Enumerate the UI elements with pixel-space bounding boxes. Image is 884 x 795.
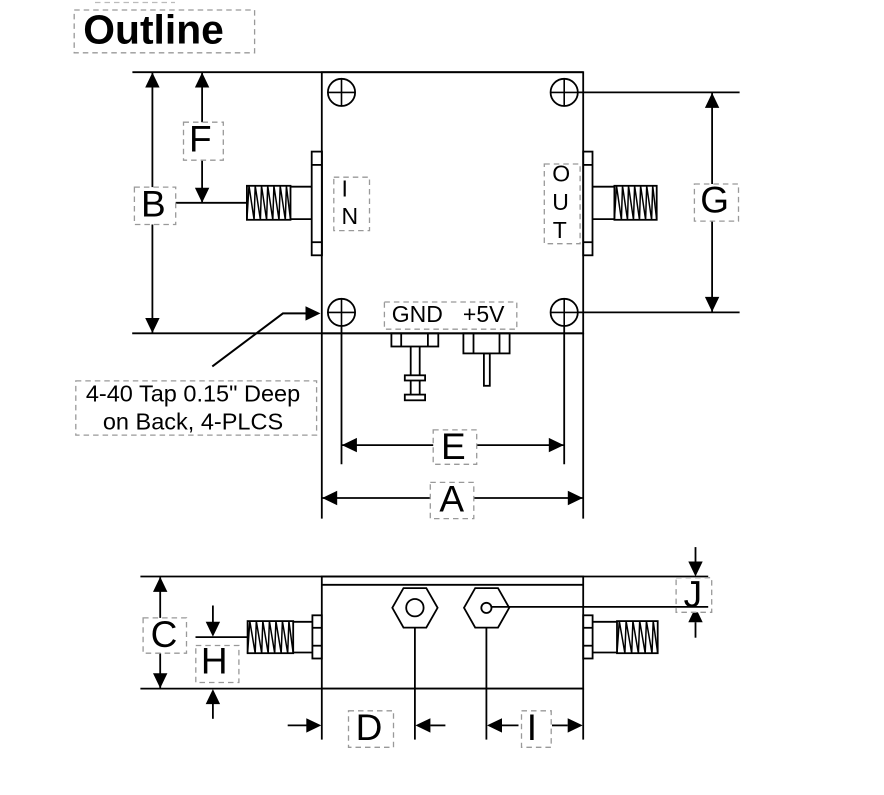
title Outline bbox=[74, 7, 254, 53]
top view: extension+bottom edge line bbox=[132, 332, 583, 334]
note 4-40 tap bbox=[76, 381, 317, 436]
svg-text:E: E bbox=[441, 426, 466, 467]
OUT connector barrel (top view) bbox=[593, 187, 615, 219]
IN connector flange (top view) bbox=[312, 152, 322, 256]
svg-text:O: O bbox=[552, 161, 570, 187]
label C bbox=[143, 614, 186, 655]
svg-text:4-40 Tap 0.15" Deep: 4-40 Tap 0.15" Deep bbox=[86, 381, 300, 407]
side view: bottom surface + extension line bbox=[140, 688, 583, 690]
leader arrow to tapped hole bbox=[212, 306, 320, 366]
dimension D arrows bbox=[288, 718, 446, 732]
leader from +5V pin to J dimension bbox=[492, 606, 709, 608]
label E bbox=[433, 426, 477, 467]
svg-text:Outline: Outline bbox=[83, 7, 224, 53]
svg-text:on Back, 4-PLCS: on Back, 4-PLCS bbox=[103, 409, 283, 435]
IN connector barrel (top view) bbox=[291, 187, 312, 219]
svg-text:+5V: +5V bbox=[463, 301, 505, 327]
OUT connector flange (top view) bbox=[583, 152, 592, 256]
side view body bbox=[322, 577, 583, 689]
svg-text:J: J bbox=[684, 574, 703, 615]
mounting hole top-right bbox=[551, 79, 578, 106]
svg-text:F: F bbox=[189, 118, 212, 159]
dimension H lower arrow bbox=[206, 689, 220, 719]
label H bbox=[196, 640, 239, 682]
label A bbox=[430, 478, 474, 519]
label B bbox=[134, 183, 175, 224]
svg-text:N: N bbox=[342, 203, 359, 229]
svg-text:T: T bbox=[553, 217, 567, 243]
IN connector thread (top view) bbox=[247, 186, 291, 220]
+5V hex standoff bbox=[464, 588, 509, 628]
OUT connector thread (side view) bbox=[617, 621, 658, 653]
label I bbox=[522, 707, 552, 748]
svg-text:G: G bbox=[700, 179, 729, 220]
svg-text:GND: GND bbox=[392, 301, 443, 327]
top view: extension+top edge line bbox=[132, 71, 583, 73]
svg-text:U: U bbox=[552, 189, 569, 215]
label F bbox=[184, 118, 224, 160]
dimension E line bbox=[342, 438, 565, 452]
dimension J upper arrow bbox=[688, 547, 702, 576]
dimension A line bbox=[322, 491, 583, 505]
label GND +5V bbox=[384, 301, 516, 329]
dimension F line bbox=[195, 73, 209, 203]
stray dashed line top bbox=[95, 2, 175, 4]
svg-text:B: B bbox=[141, 183, 166, 224]
mounting hole bottom-right bbox=[551, 299, 578, 326]
OUT connector barrel (side view) bbox=[593, 622, 617, 653]
side view lid seam bbox=[322, 584, 583, 586]
OUT connector thread (top view) bbox=[614, 186, 656, 220]
GND hex standoff bbox=[392, 588, 437, 628]
svg-text:C: C bbox=[151, 614, 178, 655]
label J bbox=[676, 574, 712, 615]
GND pin (turret terminal) bbox=[391, 333, 438, 400]
mounting hole bottom-left bbox=[328, 299, 355, 326]
IN connector flange (side view) bbox=[312, 615, 321, 658]
dimension B line bbox=[145, 73, 159, 334]
centerline leader for H bbox=[196, 636, 248, 638]
side view: top surface + extension line bbox=[140, 576, 708, 578]
label G bbox=[694, 179, 738, 221]
OUT connector flange (side view) bbox=[583, 615, 592, 658]
svg-text:I: I bbox=[342, 176, 348, 202]
label OUT bbox=[544, 161, 580, 244]
svg-text:I: I bbox=[527, 707, 537, 748]
dimension J lower arrow bbox=[688, 607, 702, 637]
dimension I arrows bbox=[487, 718, 583, 732]
svg-text:A: A bbox=[439, 478, 464, 519]
dimension A extension lines bbox=[322, 333, 583, 518]
leader from B to connector centerline bbox=[175, 202, 247, 204]
dimension G extension lines bbox=[578, 92, 740, 312]
svg-text:D: D bbox=[356, 707, 383, 748]
mounting hole top-left bbox=[328, 79, 355, 106]
D/I extension lines bbox=[322, 628, 583, 740]
IN connector barrel (side view) bbox=[293, 622, 312, 653]
svg-text:H: H bbox=[201, 640, 228, 681]
top view body (case outline) bbox=[322, 72, 583, 333]
dimension G line bbox=[705, 93, 719, 312]
+5V feed-thru pin bbox=[463, 333, 509, 386]
dimension C line bbox=[153, 577, 167, 688]
dimension E extension lines bbox=[342, 326, 565, 464]
dimension H upper arrow bbox=[206, 606, 220, 637]
IN connector thread (side view) bbox=[248, 621, 294, 653]
label IN bbox=[334, 176, 370, 231]
label D bbox=[349, 707, 394, 748]
